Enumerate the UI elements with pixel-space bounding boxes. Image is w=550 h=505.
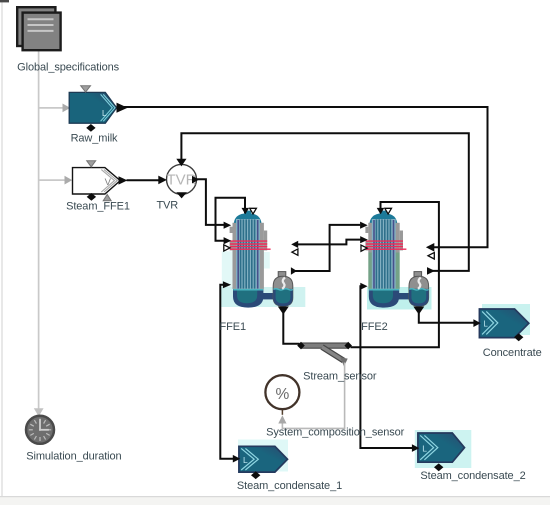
svg-text:Steam_condensate_1: Steam_condensate_1 — [237, 480, 342, 492]
svg-text:FFE2: FFE2 — [361, 321, 388, 333]
svg-text:System_composition_sensor: System_composition_sensor — [266, 427, 405, 439]
svg-text:Raw_milk: Raw_milk — [71, 132, 118, 144]
svg-text:TVR: TVR — [156, 200, 178, 212]
svg-text:L: L — [243, 455, 248, 465]
svg-text:FFE1: FFE1 — [220, 321, 247, 333]
svg-text:Simulation_duration: Simulation_duration — [26, 451, 121, 463]
svg-text:Steam_condensate_2: Steam_condensate_2 — [420, 470, 525, 482]
svg-text:L: L — [102, 109, 107, 118]
svg-text:L: L — [422, 443, 427, 453]
svg-text:L: L — [483, 320, 488, 329]
svg-text:V: V — [105, 177, 112, 188]
svg-text:Concentrate: Concentrate — [483, 347, 542, 359]
svg-text:%: % — [276, 386, 290, 403]
svg-text:Steam_FFE1: Steam_FFE1 — [66, 200, 130, 212]
svg-text:Stream_sensor: Stream_sensor — [303, 371, 377, 383]
svg-text:Global_specifications: Global_specifications — [17, 61, 119, 73]
